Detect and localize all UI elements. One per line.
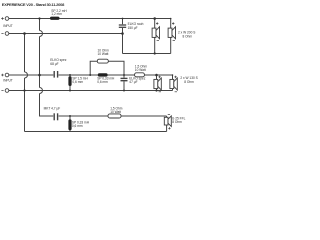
svg-text:1,2 mm: 1,2 mm [51,12,62,16]
svg-text:10 Watt: 10 Watt [135,68,146,72]
svg-text:8 Ohm: 8 Ohm [172,120,182,124]
svg-text:150 µF: 150 µF [128,26,138,30]
svg-text:EXPERIENCE V20 - Stand 30.11.2: EXPERIENCE V20 - Stand 30.11.2008 [2,2,65,7]
svg-text:INPUT: INPUT [3,78,13,82]
svg-text:47 µF: 47 µF [129,80,137,84]
svg-text:INPUT: INPUT [3,24,13,28]
svg-text:68 µF: 68 µF [50,62,58,66]
svg-text:0,6 mm: 0,6 mm [72,124,83,128]
svg-text:10 Watt: 10 Watt [98,52,109,56]
svg-text:0,6 mm: 0,6 mm [72,80,83,84]
svg-text:8 Ohm: 8 Ohm [183,34,193,38]
svg-text:MKT 4,7 µF: MKT 4,7 µF [44,107,61,111]
svg-text:10 Watt: 10 Watt [110,110,121,114]
svg-text:8 Ohm: 8 Ohm [184,80,194,84]
svg-text:0,6 mm: 0,6 mm [97,80,108,84]
